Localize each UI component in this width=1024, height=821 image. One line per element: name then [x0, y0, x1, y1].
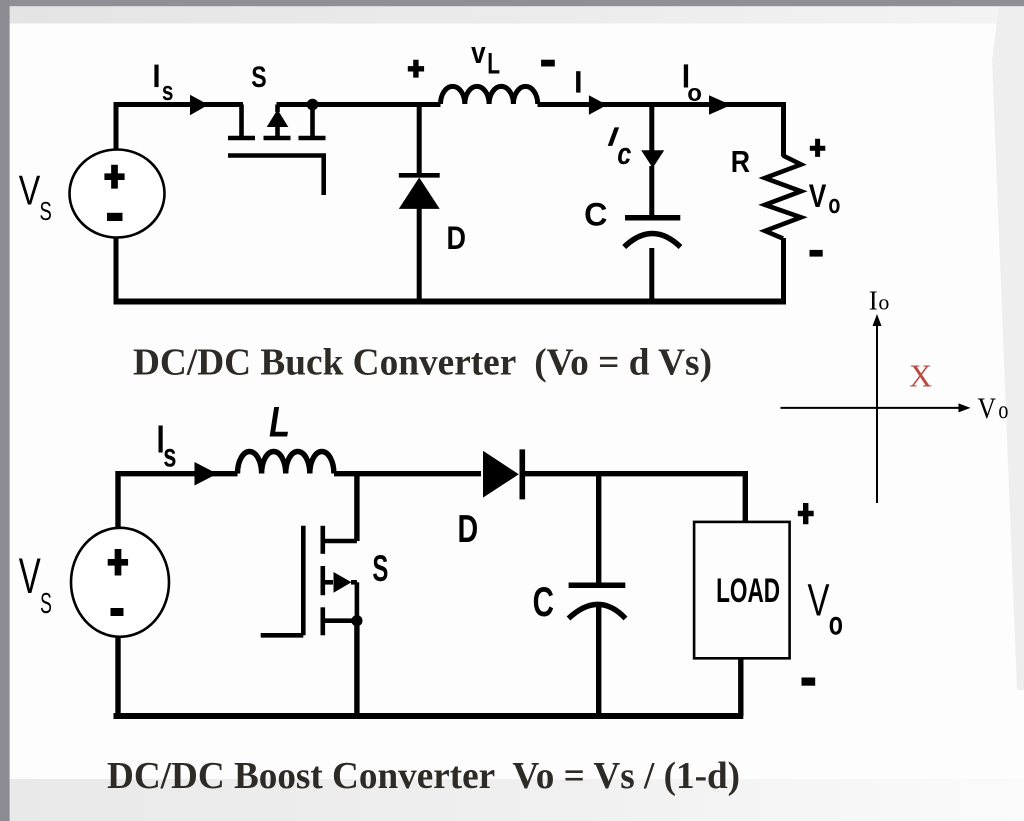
svg-text:C: C	[533, 578, 554, 625]
label Ic (italic)	[608, 127, 619, 145]
svg-text:R: R	[731, 144, 750, 179]
wire: inductor to diode	[334, 471, 481, 476]
wire: bottom rail	[114, 713, 744, 719]
plus sign at Vo (top)	[810, 139, 826, 157]
svg-text:I: I	[869, 285, 878, 315]
svg-text:c: c	[617, 136, 631, 171]
svg-text:DC/DC Buck Converter (Vo = d: DC/DC Buck Converter (Vo = d Vs)	[133, 342, 712, 384]
minus sign at Vo (top)	[810, 250, 823, 257]
svg-text:s: s	[163, 437, 176, 474]
capacitor C (boost)	[569, 583, 626, 589]
svg-text:C: C	[584, 197, 607, 233]
label Io	[684, 64, 688, 87]
svg-text:o: o	[828, 189, 840, 219]
svg-text:LOAD: LOAD	[716, 572, 780, 610]
svg-text:v: v	[471, 35, 486, 70]
voltage source Vs (bottom)	[71, 528, 169, 637]
current arrow Is	[190, 95, 208, 116]
svg-text:o: o	[998, 397, 1008, 424]
plus sign inside source	[108, 549, 128, 576]
wire: switch source vertical to bottom rail	[354, 621, 359, 716]
svg-text:L: L	[269, 398, 290, 446]
current arrow Ic (down)	[641, 150, 664, 168]
capacitor C (top plate + curved plate)	[625, 215, 680, 221]
svg-text:D: D	[447, 220, 467, 256]
svg-text:S: S	[251, 61, 266, 94]
wire: resistor bottom to bottom rail	[781, 238, 786, 302]
axis arrowhead up	[873, 314, 882, 326]
svg-text:V: V	[19, 548, 41, 604]
wire: bottom rail	[114, 299, 787, 305]
wire: switch output along top rail to inductor	[277, 102, 441, 107]
mosfet switch S (horizontal NMOS)	[228, 105, 326, 196]
axis vertical Io	[876, 322, 878, 503]
current arrow I	[589, 95, 607, 115]
svg-text:V: V	[19, 167, 41, 214]
wire: right corner down to resistor	[781, 102, 786, 157]
wire: inductor to right corner	[538, 102, 784, 107]
wire: switch drain vertical	[354, 474, 359, 541]
svg-text:o: o	[687, 80, 702, 107]
resistor R (zigzag)	[765, 156, 801, 239]
LOAD box	[694, 522, 790, 658]
svg-text:DC/DC Boost Converter Vo = Vs: DC/DC Boost Converter Vo = Vs / (1-d)	[107, 755, 740, 797]
voltage source Vs (top)	[70, 150, 165, 238]
svg-text:L: L	[487, 47, 500, 80]
minus sign inside source	[111, 608, 124, 616]
svg-text:S: S	[40, 196, 52, 226]
inductor L (boost)	[238, 451, 334, 473]
inductor (buck)	[441, 86, 538, 104]
svg-text:V: V	[978, 392, 997, 425]
wire: capacitor branch upper	[596, 474, 601, 583]
mosfet body arrow (right)	[334, 572, 352, 593]
wire: source top lead to top rail and to switch drain	[116, 105, 243, 152]
mosfet body arrow (up)	[267, 110, 289, 128]
wire: diode to right corner, down to load	[525, 474, 745, 522]
junction dot at source	[351, 615, 362, 626]
label Is (bottom)	[159, 426, 163, 453]
current arrow Is (bottom)	[195, 462, 218, 486]
wire: source bottom lead	[115, 634, 120, 716]
wire: capacitor branch lower	[596, 607, 601, 716]
minus sign right of inductor	[541, 60, 555, 67]
plus sign at Vo (boost)	[798, 503, 814, 524]
svg-text:D: D	[458, 508, 479, 551]
svg-text:s: s	[162, 76, 174, 106]
plus sign left of inductor	[408, 60, 424, 78]
wire: source bottom lead	[114, 235, 119, 302]
wire: capacitor branch lower	[649, 248, 654, 302]
wire: source top lead to rail	[118, 474, 238, 530]
diode D (boost, pointing right)	[483, 451, 519, 498]
svg-text:V: V	[808, 574, 830, 625]
svg-text:S: S	[372, 548, 388, 589]
minus sign at Vo (boost)	[802, 678, 816, 686]
svg-text:o: o	[829, 605, 843, 642]
plus sign inside source	[104, 165, 124, 189]
wire: capacitor branch upper	[649, 105, 654, 216]
axis arrowhead right	[959, 403, 971, 412]
svg-text:V: V	[809, 178, 827, 214]
svg-text:X: X	[909, 358, 932, 394]
diode D (freewheel, pointing up)	[417, 105, 422, 174]
label Is	[154, 65, 158, 88]
minus sign inside source	[107, 213, 123, 221]
junction dot at switch output	[307, 99, 319, 111]
mosfet switch (boost, vertical NMOS)	[261, 526, 357, 636]
axis horizontal Vo	[781, 407, 963, 409]
current arrow Io	[709, 95, 731, 115]
wire: load bottom lead	[738, 658, 743, 716]
svg-text:S: S	[40, 588, 52, 620]
label I	[576, 71, 580, 92]
svg-text:o: o	[878, 290, 889, 315]
